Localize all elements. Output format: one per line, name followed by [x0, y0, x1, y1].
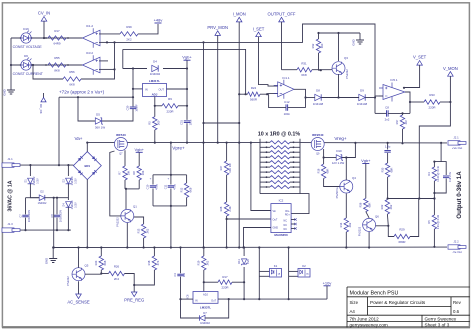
svg-text:PN2222: PN2222: [116, 217, 120, 227]
diode D1: [28, 178, 34, 184]
wire Q5 emitter: [78, 281, 80, 294]
resistor R26: [109, 271, 125, 275]
wire R9 ends: [155, 105, 162, 107]
wire IC2 gnd: [244, 228, 271, 248]
op-amp IC5.1: [383, 85, 405, 100]
wire R5 down: [154, 130, 156, 143]
capacitor C4: [180, 248, 182, 274]
wire D3 branch: [67, 165, 69, 176]
wire top72 box: [59, 96, 133, 98]
title block: [347, 287, 470, 327]
svg-text:Q6: Q6: [375, 215, 379, 219]
wire R33 leads: [410, 101, 424, 103]
wire D2 right: [45, 197, 69, 199]
svg-text:R9: R9: [168, 97, 172, 101]
wire R14 down: [345, 232, 347, 248]
svg-text:PN2222: PN2222: [358, 226, 362, 236]
wire Q5 base: [85, 273, 101, 275]
svg-text:R55: R55: [54, 56, 60, 60]
wire gate to base: [110, 151, 121, 216]
wire ladder loop: [260, 194, 309, 214]
flag CV_IN: [41, 17, 47, 22]
wire C7 top: [26, 197, 40, 199]
svg-text:IC1.2: IC1.2: [86, 24, 94, 28]
wire gate2: [323, 149, 325, 158]
mosfet Q9 IRF9540: [311, 138, 324, 151]
svg-text:R31: R31: [301, 62, 307, 66]
svg-text:220R: 220R: [167, 109, 174, 113]
resistor R55: [48, 63, 66, 67]
wire R27-R28: [226, 175, 228, 202]
svg-text:R23: R23: [94, 260, 98, 265]
wire R4 top: [433, 162, 435, 167]
svg-text:1N4002: 1N4002: [150, 72, 161, 76]
op-amp IC1.1: [278, 82, 294, 97]
wire R24 to inv: [260, 93, 278, 96]
wire row2: [11, 64, 82, 66]
svg-text:2n2: 2n2: [385, 118, 390, 122]
svg-text:D7: D7: [203, 311, 207, 315]
svg-text:2K7: 2K7: [404, 119, 408, 124]
svg-text:Q3: Q3: [344, 56, 348, 60]
svg-text:C10: C10: [146, 184, 150, 189]
svg-text:NC: NC: [284, 224, 288, 227]
svg-text:J2.1: J2.1: [453, 135, 459, 139]
svg-text:R37: R37: [395, 119, 399, 124]
svg-text:C16 +47v: C16 +47v: [449, 171, 452, 182]
svg-text:1K0: 1K0: [320, 43, 324, 48]
capacitor C9: [56, 198, 58, 215]
svg-text:R5: R5: [427, 220, 431, 224]
svg-text:68R: 68R: [368, 202, 372, 207]
svg-text:+10v: +10v: [323, 280, 332, 285]
resistor R35: [385, 163, 389, 177]
wire D1 branch: [29, 165, 31, 176]
svg-text:D16: D16: [23, 27, 29, 31]
wire Q4 collector: [345, 194, 347, 219]
svg-text:10K: 10K: [127, 170, 131, 175]
svg-text:IC2: IC2: [279, 198, 284, 202]
svg-text:100V: 100V: [76, 202, 78, 208]
svg-text:10n: 10n: [182, 272, 186, 277]
svg-text:GND: GND: [273, 227, 279, 230]
power Vgb+ top: [184, 59, 191, 61]
svg-text:+72v (approx 2 x Va+): +72v (approx 2 x Va+): [59, 89, 105, 94]
transistor Q6: [363, 218, 376, 231]
svg-text:V_MON: V_MON: [443, 66, 458, 71]
capacitor C12: [286, 104, 288, 110]
flag OUTPUT_OFF: [279, 17, 285, 22]
svg-text:12V 1.3W: 12V 1.3W: [332, 161, 345, 165]
svg-text:2K2: 2K2: [114, 277, 120, 281]
zener D10: [336, 155, 342, 161]
svg-text:IN: IN: [195, 300, 198, 303]
svg-text:J1.1: J1.1: [7, 157, 13, 161]
wire bridge top: [86, 143, 88, 152]
svg-text:R5: R5: [148, 121, 152, 125]
diode D3: [66, 178, 72, 184]
wire J1.3 row: [20, 229, 71, 231]
svg-text:ADJ: ADJ: [152, 92, 158, 96]
resistor R32: [316, 39, 320, 53]
svg-text:I_SET: I_SET: [253, 26, 265, 31]
svg-text:D10: D10: [336, 149, 342, 153]
resistor R28: [224, 202, 228, 216]
relay K2: [298, 269, 310, 278]
svg-text:2K2: 2K2: [126, 38, 132, 42]
wire R32 ends: [318, 33, 320, 39]
wire Q6 emitter: [368, 232, 370, 248]
wire Vgb chain: [186, 89, 188, 120]
svg-text:R27: R27: [219, 165, 223, 170]
ground top: [359, 33, 361, 40]
resistor R27: [224, 161, 228, 175]
connector J2.1 +Ve: [448, 141, 460, 145]
svg-text:ADJ: ADJ: [203, 293, 209, 297]
svg-text:D2: D2: [40, 189, 44, 193]
svg-text:560R: 560R: [250, 97, 257, 101]
svg-text:LM337L: LM337L: [200, 306, 211, 310]
wire x53 drop: [53, 198, 55, 248]
power Vgb+ mid: [136, 151, 143, 153]
wire IC1.1 out: [294, 89, 306, 107]
svg-text:R28: R28: [219, 206, 223, 211]
svg-text:K2: K2: [302, 264, 306, 268]
wire Vgb drop: [186, 60, 188, 89]
svg-text:1N4002: 1N4002: [38, 202, 47, 205]
svg-text:Sheet 3 of 3: Sheet 3 of 3: [425, 323, 450, 328]
wire tap row: [388, 198, 435, 200]
svg-text:RG-: RG-: [285, 210, 290, 213]
svg-text:R16: R16: [316, 168, 320, 173]
wire D9 leads: [339, 97, 359, 99]
resistor R17: [48, 36, 66, 40]
resistor R18: [153, 248, 155, 257]
svg-text:2.0K @ 0.1%: 2.0K @ 0.1%: [437, 214, 440, 229]
svg-text:IRF540: IRF540: [116, 133, 126, 137]
svg-text:220R: 220R: [222, 285, 229, 289]
resistor R13: [141, 224, 145, 238]
svg-text:D11: D11: [237, 259, 241, 264]
svg-text:36V 1W: 36V 1W: [95, 125, 106, 129]
svg-text:100u 100V: 100u 100V: [60, 210, 63, 222]
svg-text:1N4148: 1N4148: [71, 200, 74, 209]
svg-text:CONST VOLTAGE: CONST VOLTAGE: [13, 45, 43, 49]
wire R36-Q6: [366, 212, 369, 218]
wire D7 right: [205, 299, 229, 318]
wire cc box: [123, 49, 246, 94]
wire caps to bus: [170, 206, 172, 248]
wire J1.1 to bridge: [20, 164, 73, 166]
wire Vgb mid: [138, 152, 140, 166]
wire mid rung: [203, 42, 205, 247]
wire D4 to IN: [101, 69, 133, 122]
svg-text:R14: R14: [339, 222, 343, 227]
wire bottom bus: [53, 246, 447, 248]
mosfet Q8 IRF540: [114, 138, 127, 151]
wire CV_IN down: [43, 21, 45, 38]
svg-text:RG+: RG+: [285, 213, 291, 216]
resistor R8: [137, 166, 141, 180]
transistor Q1: [121, 209, 134, 222]
diode D7: [199, 315, 205, 321]
wire Q1 to R13: [134, 217, 144, 224]
svg-text:CV_IN: CV_IN: [38, 11, 50, 16]
svg-text:100n: 100n: [284, 112, 291, 116]
svg-text:R4: R4: [427, 172, 431, 176]
svg-text:470u: 470u: [155, 184, 159, 190]
svg-text:68R: 68R: [325, 168, 329, 173]
svg-text:R8: R8: [132, 171, 136, 175]
svg-text:GND: GND: [352, 39, 356, 45]
wire bus y42: [107, 24, 375, 113]
svg-text:Size: Size: [350, 300, 359, 305]
svg-text:R36: R36: [359, 202, 363, 207]
svg-text:Modular Bench PSU: Modular Bench PSU: [350, 291, 399, 297]
svg-text:Power & Regulator Circuits: Power & Regulator Circuits: [370, 300, 426, 305]
svg-text:Vgb+: Vgb+: [361, 158, 371, 163]
svg-text:6K8: 6K8: [188, 187, 192, 192]
resistor R14: [344, 218, 348, 232]
wire IC1.2 inputs: [99, 33, 120, 35]
svg-text:AC_SENSE: AC_SENSE: [67, 300, 90, 305]
svg-text:+Ve Out: +Ve Out: [452, 146, 462, 150]
svg-text:10.0K @ 0.1%: 10.0K @ 0.1%: [437, 165, 440, 181]
wire IN left: [181, 298, 194, 300]
wire Q6 base: [376, 225, 389, 227]
op-amp IC3.2: [82, 57, 100, 73]
svg-text:J1.3: J1.3: [7, 222, 13, 226]
capacitor C31: [184, 121, 190, 123]
bridge rectifier BR1: [73, 152, 101, 180]
svg-text:R33: R33: [429, 93, 435, 97]
transistor Q3: [332, 62, 345, 75]
connector J2.2 -Ve: [448, 245, 460, 249]
svg-text:100n: 100n: [189, 119, 193, 125]
flag I_SET: [256, 32, 262, 37]
svg-text:D8: D8: [316, 89, 320, 93]
resistor R5b: [432, 215, 436, 229]
wire PRV_MON down: [217, 35, 219, 142]
wire R28 out: [226, 216, 228, 248]
flag I_MON: [236, 17, 242, 22]
svg-text:1.5u: 1.5u: [385, 145, 391, 149]
svg-text:GND: GND: [45, 258, 49, 264]
resistor R4: [432, 167, 436, 181]
svg-text:Vin: Vin: [273, 210, 277, 213]
capacitor C16: [441, 162, 446, 175]
svg-text:Vgb+: Vgb+: [182, 55, 192, 60]
svg-text:100nF: 100nF: [135, 104, 139, 112]
svg-text:R29: R29: [399, 228, 405, 232]
svg-text:C8: C8: [385, 106, 389, 110]
LED D16: [21, 33, 31, 43]
svg-text:IC3.2: IC3.2: [86, 51, 94, 55]
svg-text:68R: 68R: [389, 167, 393, 172]
svg-text:1K0: 1K0: [156, 120, 160, 125]
svg-text:47K: 47K: [156, 260, 160, 265]
svg-text:LM317L: LM317L: [149, 79, 160, 83]
power +48v: [155, 22, 162, 24]
svg-text:8K8: 8K8: [54, 69, 60, 73]
resistor R5: [153, 117, 157, 130]
svg-text:GND: GND: [3, 89, 7, 95]
wire D8 leads: [306, 97, 315, 99]
zener D5: [95, 118, 101, 124]
svg-text:100V: 100V: [76, 178, 78, 184]
svg-text:2K2: 2K2: [145, 228, 149, 233]
wire Q3 collector: [338, 33, 340, 61]
svg-text:Q4: Q4: [352, 176, 356, 180]
svg-text:MAX6350: MAX6350: [274, 233, 288, 237]
wire IC5.1 out: [405, 92, 410, 113]
wire R17b leads: [204, 281, 218, 283]
wire +Ve node: [434, 143, 441, 162]
LED D6: [21, 60, 31, 70]
transistor Q4: [340, 180, 353, 193]
svg-text:10 x 1R0 @ 0.1%: 10 x 1R0 @ 0.1%: [258, 131, 301, 137]
wire Vgb- down: [365, 164, 367, 199]
svg-text:64R9: 64R9: [54, 42, 61, 46]
svg-text:OUTPUT_OFF: OUTPUT_OFF: [268, 12, 296, 17]
svg-text:10K: 10K: [141, 170, 145, 175]
svg-text:C12: C12: [284, 100, 290, 104]
wire V_MON down: [419, 76, 450, 198]
svg-text:R32: R32: [311, 43, 315, 48]
svg-text:+48v: +48v: [154, 18, 163, 23]
svg-text:NC: NC: [284, 219, 288, 222]
resistor R26b: [321, 164, 325, 179]
wire R37 ends: [402, 113, 404, 115]
connector J1.3: [2, 228, 14, 232]
IC2 nc stubs: [291, 219, 295, 221]
diode D8: [315, 94, 321, 100]
svg-text:100u 100V: 100u 100V: [28, 210, 31, 222]
capacitor C15: [384, 151, 390, 153]
svg-text:D9: D9: [360, 89, 364, 93]
wire x59 drop: [58, 97, 60, 165]
svg-text:6K8: 6K8: [103, 260, 107, 265]
svg-text:OUT: OUT: [159, 88, 165, 92]
svg-text:6V8: 6V8: [246, 259, 250, 264]
svg-text:0.6: 0.6: [453, 309, 460, 314]
svg-text:-Ve Out: -Ve Out: [452, 250, 462, 254]
svg-text:Q5: Q5: [85, 264, 89, 268]
resistor R39: [120, 32, 138, 36]
wire Q1 emitter: [126, 223, 128, 248]
flag V_MON: [448, 72, 454, 77]
svg-text:IN: IN: [145, 88, 148, 92]
wire R7R8 join: [124, 180, 126, 189]
wire K2 feed: [288, 248, 290, 300]
wire D10 leads: [324, 157, 337, 159]
svg-text:D6: D6: [24, 54, 28, 58]
svg-text:6K8: 6K8: [301, 73, 307, 77]
svg-text:470u: 470u: [173, 184, 177, 190]
wire bus to fb: [81, 42, 115, 79]
wire left rail: [10, 38, 12, 90]
flag V_SET: [417, 61, 423, 66]
wire V_SET down: [404, 65, 420, 87]
wire Q1 collector: [125, 189, 127, 209]
resistor R31: [297, 68, 312, 72]
wire D3-D7: [67, 184, 69, 200]
wire OUTPUT_OFF down: [281, 22, 283, 70]
svg-text:Output 0-36v 1A: Output 0-36v 1A: [456, 171, 463, 219]
svg-text:PRE_REG: PRE_REG: [124, 298, 144, 303]
resistor R19: [203, 248, 205, 257]
svg-text:BR1: BR1: [84, 164, 90, 168]
svg-text:7th June 2012: 7th June 2012: [350, 316, 380, 321]
svg-text:Va+: Va+: [75, 136, 83, 141]
svg-text:CONST CURRENT: CONST CURRENT: [13, 72, 44, 76]
svg-text:I_MON: I_MON: [233, 12, 246, 17]
svg-text:C30: C30: [126, 105, 130, 110]
svg-text:2K2: 2K2: [389, 204, 393, 209]
resistor R7: [123, 166, 127, 180]
svg-text:C11: C11: [164, 184, 168, 189]
svg-text:100V: 100V: [38, 178, 40, 184]
svg-text:R7: R7: [118, 171, 122, 175]
op-amp IC1.2: [82, 30, 100, 46]
svg-text:1N4148: 1N4148: [357, 102, 368, 106]
wire D1-D2: [30, 184, 39, 198]
regulator IC10 LM317: [143, 84, 167, 97]
wire IC3.2 fb: [99, 68, 115, 70]
IC2 MAX6350: [271, 204, 291, 233]
flag DC_OK: [43, 93, 45, 98]
svg-text:NC: NC: [284, 228, 288, 231]
svg-text:1N5404: 1N5404: [71, 176, 74, 185]
power Vgb- flag: [362, 163, 369, 165]
wire to +48v: [138, 24, 158, 34]
svg-text:R12: R12: [179, 187, 183, 192]
flag AC_SENSE: [76, 294, 82, 299]
svg-text:Vpre+: Vpre+: [172, 146, 185, 151]
svg-text:C4: C4: [173, 273, 177, 277]
diode D7b: [66, 202, 72, 208]
svg-text:K1: K1: [274, 264, 278, 268]
wire D5 left: [78, 97, 95, 121]
wire D7 loop: [181, 299, 200, 318]
svg-text:R13: R13: [136, 228, 140, 233]
wire K1 feed: [258, 248, 260, 300]
wire R31 to base: [312, 69, 332, 71]
svg-text:1N4148: 1N4148: [313, 102, 324, 106]
wire I_SET down: [259, 37, 260, 85]
wire R13 down: [143, 238, 145, 248]
svg-text:1N4002: 1N4002: [200, 321, 210, 325]
svg-text:V_SET: V_SET: [413, 55, 427, 60]
svg-text:6K8: 6K8: [69, 83, 75, 87]
svg-text:R22: R22: [380, 204, 384, 209]
svg-text:R19: R19: [197, 260, 201, 265]
resistor R29: [394, 234, 410, 238]
svg-text:680R: 680R: [399, 240, 406, 244]
svg-text:+: +: [150, 177, 152, 181]
svg-text:gerrysweeney.com: gerrysweeney.com: [350, 323, 388, 328]
resistor R17b: [218, 280, 232, 284]
wire bridge bottom: [86, 180, 88, 248]
svg-text:Rev: Rev: [453, 300, 462, 305]
svg-text:IC1.1: IC1.1: [282, 76, 290, 80]
svg-text:R56: R56: [69, 70, 75, 74]
wire C15 chain: [387, 143, 389, 150]
relay K1: [270, 269, 282, 278]
wire Vin drop: [251, 143, 271, 211]
wire OUT right: [167, 88, 188, 90]
zener D11: [243, 248, 245, 257]
